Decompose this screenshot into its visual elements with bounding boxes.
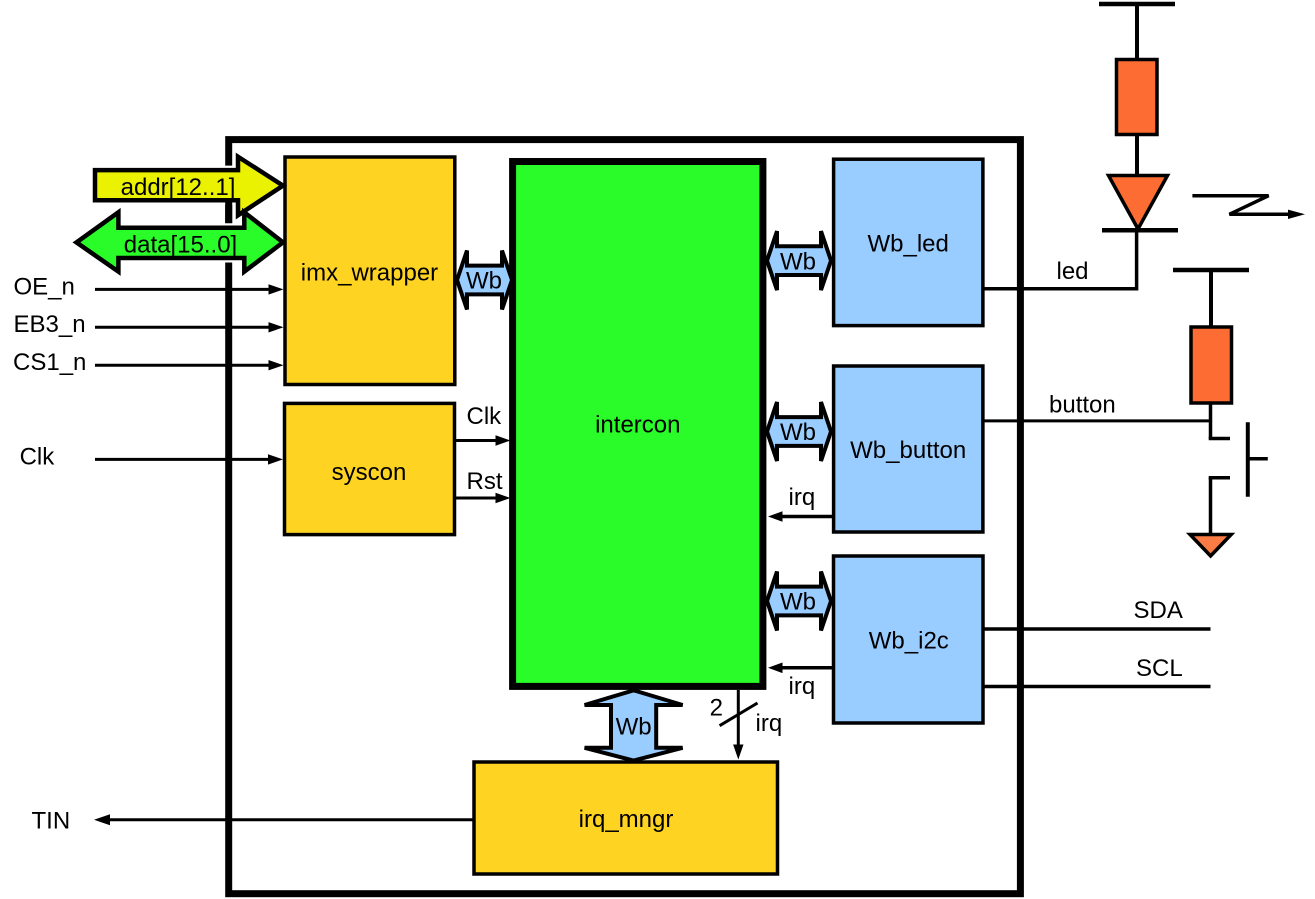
light emission arrow xyxy=(1192,196,1305,219)
bus arrow data[15..0] xyxy=(76,212,283,271)
wishbone arrow Wb (intercon - Wb_i2c) xyxy=(767,572,831,631)
wire Clk (syscon - intercon) xyxy=(455,403,511,446)
svg-text:syscon: syscon xyxy=(332,459,407,486)
resistor R2 (button pull-up) xyxy=(1191,327,1232,403)
wire irq (Wb_i2c - intercon) xyxy=(768,663,834,701)
wire SCL xyxy=(983,655,1211,687)
label syscon xyxy=(332,459,407,486)
block irq_mngr xyxy=(474,762,778,874)
svg-text:Wb: Wb xyxy=(780,248,816,275)
wire R2 - switch top contact xyxy=(1209,403,1230,439)
wire Rst (syscon - intercon) xyxy=(455,468,511,503)
svg-text:irq_mngr: irq_mngr xyxy=(579,806,674,833)
block Wb_led xyxy=(834,159,983,325)
ground xyxy=(1190,535,1231,557)
wire SDA xyxy=(983,597,1211,629)
svg-text:SCL: SCL xyxy=(1136,655,1183,682)
svg-text:Wb: Wb xyxy=(466,268,502,295)
bus arrow halo data xyxy=(76,212,283,271)
svg-text:CS1_n: CS1_n xyxy=(13,349,86,376)
svg-text:Clk: Clk xyxy=(467,403,503,430)
svg-text:Wb: Wb xyxy=(780,419,816,446)
wire Clk input xyxy=(20,443,283,470)
block imx_wrapper xyxy=(285,157,455,385)
wire TIN output xyxy=(32,807,475,834)
bus arrow halo addr xyxy=(95,157,283,216)
resistor R1 (led series) xyxy=(1117,60,1158,135)
wire R1 - D1 xyxy=(1135,134,1139,177)
wishbone arrow Wb vertical (intercon - irq_mngr) xyxy=(585,690,683,760)
wire irq bus (intercon - irq_mngr) with width-2 slash xyxy=(710,690,783,760)
wire led xyxy=(983,230,1137,291)
block syscon xyxy=(285,403,455,534)
label irq_mngr xyxy=(579,806,674,833)
label Wb_i2c xyxy=(869,628,949,655)
wire OE_n xyxy=(14,273,284,300)
wire button xyxy=(983,392,1210,421)
svg-text:Clk: Clk xyxy=(20,443,56,470)
svg-text:Wb_i2c: Wb_i2c xyxy=(869,628,949,655)
wire switch bottom contact - ground xyxy=(1209,478,1230,534)
block Wb_button xyxy=(834,366,983,532)
svg-text:irq: irq xyxy=(756,710,783,737)
svg-text:SDA: SDA xyxy=(1134,597,1183,624)
wishbone arrow Wb (intercon - Wb_led) xyxy=(767,231,831,290)
wire irq (Wb_button - intercon) xyxy=(768,484,834,522)
FPGA outer boundary box xyxy=(229,140,1021,894)
wire EB3_n xyxy=(14,311,284,338)
block intercon xyxy=(513,162,763,687)
svg-text:led: led xyxy=(1057,258,1089,285)
svg-text:TIN: TIN xyxy=(32,807,71,834)
vcc power rail 1 xyxy=(1099,4,1175,60)
label Wb_led xyxy=(868,231,949,258)
wire CS1_n xyxy=(13,349,284,376)
label imx_wrapper xyxy=(301,259,438,286)
vcc power rail 2 xyxy=(1173,270,1249,328)
wishbone arrow Wb (imx_wrapper - intercon) xyxy=(457,251,512,310)
svg-text:Rst: Rst xyxy=(467,468,503,495)
block Wb_i2c xyxy=(834,556,984,723)
LED D1 xyxy=(1102,176,1178,231)
svg-text:intercon: intercon xyxy=(595,412,680,439)
push-button switch S1 xyxy=(1248,422,1268,497)
svg-text:Wb_button: Wb_button xyxy=(850,437,966,464)
svg-text:imx_wrapper: imx_wrapper xyxy=(301,259,438,286)
svg-text:data[15..0]: data[15..0] xyxy=(124,232,237,259)
border patch below addr arrow xyxy=(225,201,232,224)
svg-text:Wb: Wb xyxy=(780,589,816,616)
svg-text:Wb: Wb xyxy=(616,714,652,741)
bus arrow addr[12..1] xyxy=(95,157,283,216)
label intercon xyxy=(595,412,680,439)
svg-text:irq: irq xyxy=(789,484,816,511)
svg-text:addr[12..1]: addr[12..1] xyxy=(121,174,236,201)
svg-text:EB3_n: EB3_n xyxy=(14,311,86,338)
wishbone arrow Wb (intercon - Wb_button) xyxy=(767,402,831,461)
svg-text:irq: irq xyxy=(789,673,816,700)
svg-text:button: button xyxy=(1049,392,1116,419)
label Wb_button xyxy=(850,437,966,464)
svg-text:Wb_led: Wb_led xyxy=(868,231,949,258)
svg-text:OE_n: OE_n xyxy=(14,273,75,300)
svg-text:2: 2 xyxy=(710,695,723,722)
